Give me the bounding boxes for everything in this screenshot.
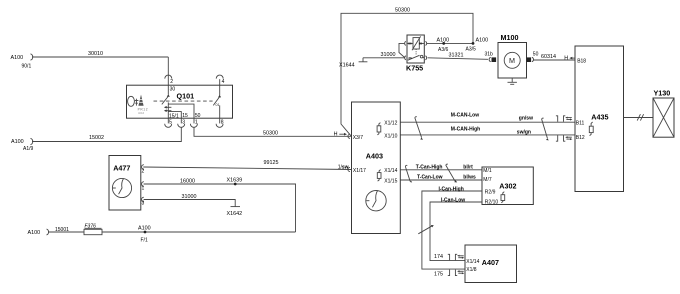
svg-text:50: 50 <box>533 52 539 58</box>
pin 1 of A477 <box>142 182 145 192</box>
pin X1/10 <box>384 134 397 140</box>
jumper wire top-left pin <box>399 43 405 57</box>
wire A435 to Y130 <box>624 114 654 120</box>
pin 2 loop of Q101 <box>165 75 176 92</box>
ground at M100 <box>508 78 517 84</box>
node H arrow into X3/7 <box>334 132 347 138</box>
wire M-CAN-High <box>400 126 575 135</box>
svg-text:31321: 31321 <box>449 53 464 59</box>
svg-text:K755: K755 <box>406 64 423 73</box>
pin X1/12 <box>384 120 397 126</box>
internal wire to pin 15 <box>168 112 181 119</box>
relay contact <box>408 55 425 60</box>
svg-text:R2/10: R2/10 <box>485 199 499 205</box>
ignition switch Q101 <box>127 85 233 118</box>
svg-text:A3/5: A3/5 <box>466 47 477 53</box>
wire T-Can-High <box>400 164 482 170</box>
pin 31b of M100 <box>485 52 497 62</box>
svg-text:A100: A100 <box>476 38 489 44</box>
wire 50300 lower <box>194 127 352 136</box>
svg-text:85: 85 <box>419 41 423 45</box>
svg-text:X1639: X1639 <box>227 177 243 183</box>
svg-text:X1/14: X1/14 <box>466 259 479 265</box>
control unit A403 <box>352 102 401 234</box>
wire 31321 <box>428 53 488 60</box>
svg-text:15001: 15001 <box>55 227 69 233</box>
svg-text:M-CAN-High: M-CAN-High <box>451 126 480 132</box>
svg-text:I-Can-High: I-Can-High <box>439 186 464 192</box>
svg-text:16000: 16000 <box>180 178 195 184</box>
clock symbol A477 <box>112 178 131 197</box>
relay coil <box>407 36 424 55</box>
fuse F376 <box>84 224 102 235</box>
pin 3 loop <box>178 118 186 127</box>
wire 30010 <box>32 51 168 57</box>
pin X1/15 <box>384 178 397 184</box>
svg-text:A100: A100 <box>11 139 24 145</box>
pin 4 loop of Q101 <box>216 75 224 85</box>
svg-text:X1644: X1644 <box>339 62 355 68</box>
wire I-Can-High <box>422 186 482 269</box>
svg-text:2: 2 <box>142 168 145 174</box>
gateway A302 <box>482 167 533 205</box>
svg-text:M/7: M/7 <box>483 177 492 183</box>
svg-text:T-Can-High: T-Can-High <box>416 164 443 170</box>
svg-text:A100: A100 <box>11 55 24 61</box>
svg-text:Q101: Q101 <box>177 92 195 101</box>
svg-text:31b: 31b <box>485 52 494 58</box>
ground X1644 <box>339 58 367 69</box>
svg-text:X1/17: X1/17 <box>353 168 366 174</box>
svg-text:174: 174 <box>434 254 443 260</box>
svg-text:30010: 30010 <box>88 51 103 57</box>
wire M-CAN-Low <box>400 113 575 123</box>
wire 16000 <box>144 178 296 232</box>
svg-text:X1/10: X1/10 <box>384 134 397 140</box>
node A100 90/1 connector <box>11 54 33 70</box>
svg-text:bl/ws: bl/ws <box>463 175 476 181</box>
wire I-Can-Low <box>430 197 482 260</box>
svg-text:T-Can-Low: T-Can-Low <box>417 175 443 181</box>
svg-text:H: H <box>334 132 338 138</box>
svg-text:A403: A403 <box>366 151 383 160</box>
wire 60314 <box>534 54 576 60</box>
pin 5 loop <box>165 118 172 127</box>
svg-text:A477: A477 <box>113 163 130 172</box>
svg-text:01: 01 <box>216 103 220 107</box>
svg-text:A100: A100 <box>138 226 151 232</box>
node A100 F/1 <box>138 226 151 244</box>
pin X1/17 <box>348 167 366 174</box>
timer module A477 <box>109 156 141 211</box>
terminator inside A403 lower <box>377 170 381 182</box>
terminator inside A302 <box>501 192 505 203</box>
switch contact 61 <box>213 85 221 118</box>
pin X3/7 <box>348 134 363 141</box>
terminator inside A435 <box>589 122 593 136</box>
svg-text:B11: B11 <box>576 120 585 126</box>
pin arcs K755 <box>405 41 427 59</box>
node X1639 <box>227 177 243 185</box>
wire 31000 A477 <box>144 194 236 207</box>
twist slash left <box>415 117 423 140</box>
switch contact 30/50 <box>162 85 170 118</box>
svg-text:M: M <box>509 56 515 65</box>
svg-text:90/1: 90/1 <box>22 64 32 70</box>
svg-text:I-Can-Low: I-Can-Low <box>441 197 465 203</box>
pin 50 of M100 <box>527 52 539 62</box>
svg-text:X1/15: X1/15 <box>384 178 397 184</box>
terminator inside A403 upper <box>377 123 381 135</box>
svg-text:B18: B18 <box>577 58 586 64</box>
svg-text:3: 3 <box>142 201 145 207</box>
svg-text:175: 175 <box>434 271 443 277</box>
starter motor M100 <box>498 33 527 78</box>
relay pin numbers <box>408 41 422 59</box>
node A100 A1/9 connector <box>11 138 34 152</box>
wire label 174 <box>434 254 443 260</box>
pin 2 of A477 <box>142 165 145 175</box>
svg-text:50: 50 <box>195 113 201 119</box>
twist slash T-CAN <box>446 164 457 182</box>
wire 50300 top rail <box>341 7 473 136</box>
svg-text:8: 8 <box>221 120 224 126</box>
wire 15002 <box>32 127 181 141</box>
pin 3 of A477 <box>142 197 145 207</box>
node A100 A3/5 <box>466 38 489 53</box>
svg-text:X1/8: X1/8 <box>466 267 477 273</box>
twisted pair symbol B11 <box>556 116 573 122</box>
svg-text:B12: B12 <box>576 135 585 141</box>
svg-text:sw/gn: sw/gn <box>517 130 531 136</box>
pin X1/14 of A403 <box>384 168 397 174</box>
pin 1 loop <box>190 118 198 127</box>
svg-text:A100: A100 <box>437 38 450 44</box>
twisted pair symbol 174 <box>448 254 465 260</box>
wire T-Can-Low <box>400 175 482 181</box>
twist slash right <box>542 118 549 140</box>
svg-text:A3/6: A3/6 <box>438 47 449 53</box>
control unit A435 <box>575 46 624 192</box>
twisted pair symbol 175 <box>448 270 465 276</box>
svg-text:R2/9: R2/9 <box>485 190 496 196</box>
svg-text:F/1: F/1 <box>141 237 148 243</box>
svg-text:A100: A100 <box>28 230 41 236</box>
wire 99125 <box>143 160 351 170</box>
svg-text:A407: A407 <box>482 258 499 267</box>
svg-text:15: 15 <box>182 113 188 119</box>
node A100 A3/6 <box>437 38 450 53</box>
svg-text:Y130: Y130 <box>654 89 671 98</box>
svg-text:A1/9: A1/9 <box>23 146 34 152</box>
svg-text:X1642: X1642 <box>227 211 243 217</box>
wire fuse to riser <box>102 231 296 233</box>
svg-text:15/1: 15/1 <box>169 113 179 119</box>
svg-text:4: 4 <box>222 79 225 85</box>
actuation arrows <box>164 106 172 112</box>
svg-text:A435: A435 <box>591 112 608 121</box>
svg-text:3: 3 <box>182 120 185 126</box>
ignition lock symbol <box>128 95 148 116</box>
svg-text:50300: 50300 <box>395 7 410 13</box>
svg-text:M/1: M/1 <box>483 168 492 174</box>
relay K755 <box>406 35 424 73</box>
svg-text:X1/12: X1/12 <box>384 120 397 126</box>
node A100 bottom connector <box>28 229 49 236</box>
pin 8 loop <box>216 118 224 127</box>
svg-text:50300: 50300 <box>263 131 278 137</box>
svg-text:1/sw: 1/sw <box>338 165 349 171</box>
svg-text:X1/14: X1/14 <box>384 168 397 174</box>
svg-text:1: 1 <box>195 120 198 126</box>
svg-text:99125: 99125 <box>264 160 279 166</box>
wire drop to Q101 pin 2 <box>167 57 169 85</box>
svg-text:1: 1 <box>142 186 145 192</box>
wire A100 rail to junction <box>427 42 474 44</box>
svg-text:H: H <box>564 55 568 61</box>
svg-text:60314: 60314 <box>541 54 556 60</box>
valve Y130 <box>653 89 674 138</box>
wire 31000 to X1644 <box>363 52 404 58</box>
svg-text:86: 86 <box>408 41 412 45</box>
wire label 175 <box>434 271 443 277</box>
svg-text:bl/rt: bl/rt <box>463 164 473 170</box>
wire 15001 <box>48 227 84 233</box>
svg-text:M100: M100 <box>501 33 519 42</box>
svg-text:30: 30 <box>408 56 412 60</box>
svg-text:gn/sw: gn/sw <box>519 116 533 122</box>
node H arrow at B18 <box>564 55 574 61</box>
pin labels 15/1 15 50 <box>169 113 201 119</box>
svg-text:M-CAN-Low: M-CAN-Low <box>451 113 479 119</box>
internal wire to pin 50 <box>168 104 194 118</box>
svg-text:4 3 2: 4 3 2 <box>138 111 144 115</box>
svg-text:31000: 31000 <box>182 194 197 200</box>
svg-text:X3/7: X3/7 <box>353 135 364 141</box>
svg-text:2: 2 <box>170 79 173 85</box>
svg-text:A302: A302 <box>499 182 516 191</box>
svg-text:30: 30 <box>170 87 176 93</box>
clock symbol A403 <box>366 191 386 211</box>
svg-text:31000: 31000 <box>381 52 396 58</box>
dashed actuation line <box>154 100 213 102</box>
twisted pair symbol B12 <box>556 135 573 141</box>
twist slash T-CAN near pins <box>405 165 412 182</box>
svg-text:5: 5 <box>169 120 172 126</box>
ground X1642 <box>227 207 243 217</box>
svg-text:15002: 15002 <box>89 135 104 141</box>
twist slash I-CAN <box>418 225 434 234</box>
control unit A407 <box>465 245 517 283</box>
